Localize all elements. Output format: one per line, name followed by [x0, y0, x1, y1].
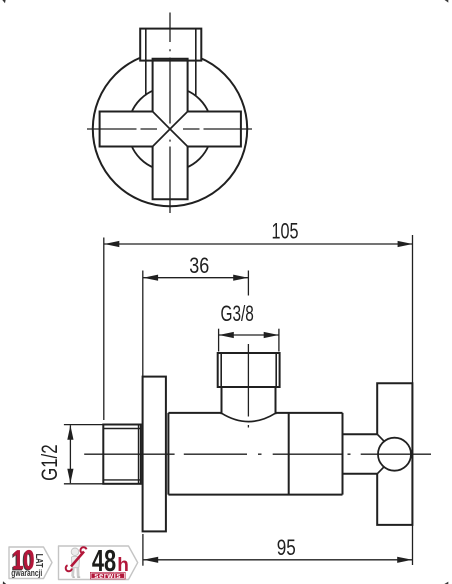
top view: horizontal centerline — [87, 128, 252, 130]
top view: vertical arm upper edges — [153, 60, 188, 112]
front view: G3/8 nut facet right — [275, 353, 277, 387]
front view: wall flange — [143, 377, 166, 532]
dimension 105 left extension line — [103, 238, 105, 421]
svg-text:LAT: LAT — [33, 554, 45, 568]
svg-text:G3/8: G3/8 — [221, 301, 254, 326]
dimension G1/2 bottom extension — [64, 483, 103, 485]
serwis ribbon — [90, 572, 126, 579]
top view: stem nut rectangle — [140, 29, 201, 61]
handyman figure — [66, 547, 87, 577]
top view: X ridge diagonal lower-left — [153, 129, 170, 147]
dimension 105 right arrow — [398, 241, 413, 247]
front view: neck to handle top line — [343, 433, 378, 435]
dimension G1/2 up arrow — [67, 425, 73, 440]
svg-text:G1/2: G1/2 — [37, 444, 62, 481]
dimension 36 left extension line — [142, 271, 144, 377]
dimension 105/95 right extension line — [412, 235, 414, 565]
dimension 105 left arrow — [104, 241, 119, 247]
svg-text:36: 36 — [189, 253, 209, 278]
dimension 36 right arrow — [233, 275, 248, 281]
front view: G1/2 thread line bottom — [103, 479, 141, 481]
top view: vertical centerline — [169, 13, 171, 214]
front view: handle hub circle — [378, 438, 411, 471]
top view: inner circle (handle hub) — [128, 87, 212, 171]
svg-text:95: 95 — [277, 535, 296, 560]
dimension 95 line — [143, 559, 412, 561]
svg-text:gwarancji: gwarancji — [11, 568, 42, 578]
front view: neck chamfer bottom — [377, 467, 384, 474]
top view: bonnet / nut facet line right — [195, 29, 197, 95]
dimension 36 right extension line — [247, 271, 249, 296]
top view: cross handle silhouette — [100, 59, 241, 200]
dimension G1/2 top extension — [64, 424, 103, 426]
badge: 10 lat gwarancji — [9, 545, 52, 579]
front view: body section divider — [288, 413, 290, 495]
top view: X ridge diagonal lower-right — [170, 129, 188, 147]
badge: 48h serwis — [59, 543, 138, 580]
front view: G1/2 thread line top — [103, 428, 141, 430]
top view: horizontal arm right section — [188, 112, 241, 147]
top view: vertical arm lower section — [153, 147, 188, 200]
top view: bonnet / nut facet line left — [145, 29, 147, 95]
front view: outlet cylinder right edge — [275, 387, 277, 414]
front view: outlet vertical centerline — [247, 344, 249, 428]
dimension G3/8 left arrow — [219, 332, 234, 338]
dimension G3/8 right extension — [278, 329, 280, 352]
front view: G3/8 nut facet left — [220, 353, 222, 387]
dimension 95 left arrow — [143, 557, 158, 563]
dimension 105 line — [104, 243, 413, 245]
front view: outlet-to-body fillet dome — [222, 413, 276, 421]
top view: horizontal arm left section — [100, 112, 153, 147]
svg-text:105: 105 — [272, 218, 299, 243]
dimension 36 left arrow — [143, 275, 158, 281]
dimension 95 left extension — [142, 534, 144, 566]
dimension G3/8 left extension — [218, 329, 220, 352]
scan artifact top-right corner — [445, 0, 449, 3]
svg-text:serwis: serwis — [94, 571, 121, 580]
front view: neck to handle bottom line — [343, 473, 378, 475]
scan artifact bottom-left corner — [3, 581, 6, 584]
dimension G3/8 right arrow — [264, 332, 279, 338]
front view: outlet cylinder left edge — [221, 387, 223, 414]
front view: horizontal centerline — [84, 453, 431, 455]
dimension 36 line — [143, 277, 248, 279]
dimension G3/8 line — [219, 334, 279, 336]
front view: handle bar — [377, 383, 412, 525]
top view: X ridge diagonal upper-left — [153, 112, 170, 130]
front view: G3/8 nut — [218, 353, 280, 387]
top view: outer circle (handle rim) — [93, 52, 247, 206]
dimension 95 right arrow — [397, 557, 412, 563]
scan artifact bottom-right corner — [444, 582, 448, 584]
dimension G1/2 line — [69, 425, 71, 483]
front view: G1/2 thread facet line right — [138, 425, 140, 484]
top view: vertical arm top edge bump behind nut — [153, 59, 188, 62]
front view: valve body outline — [168, 413, 342, 495]
dimension G1/2 down arrow — [67, 469, 73, 484]
front view: neck chamfer top — [377, 434, 384, 441]
scan artifact top-left corner — [2, 0, 5, 3]
front view: G1/2 threaded connector — [103, 425, 141, 484]
top view: X ridge diagonal upper-right — [170, 112, 188, 130]
